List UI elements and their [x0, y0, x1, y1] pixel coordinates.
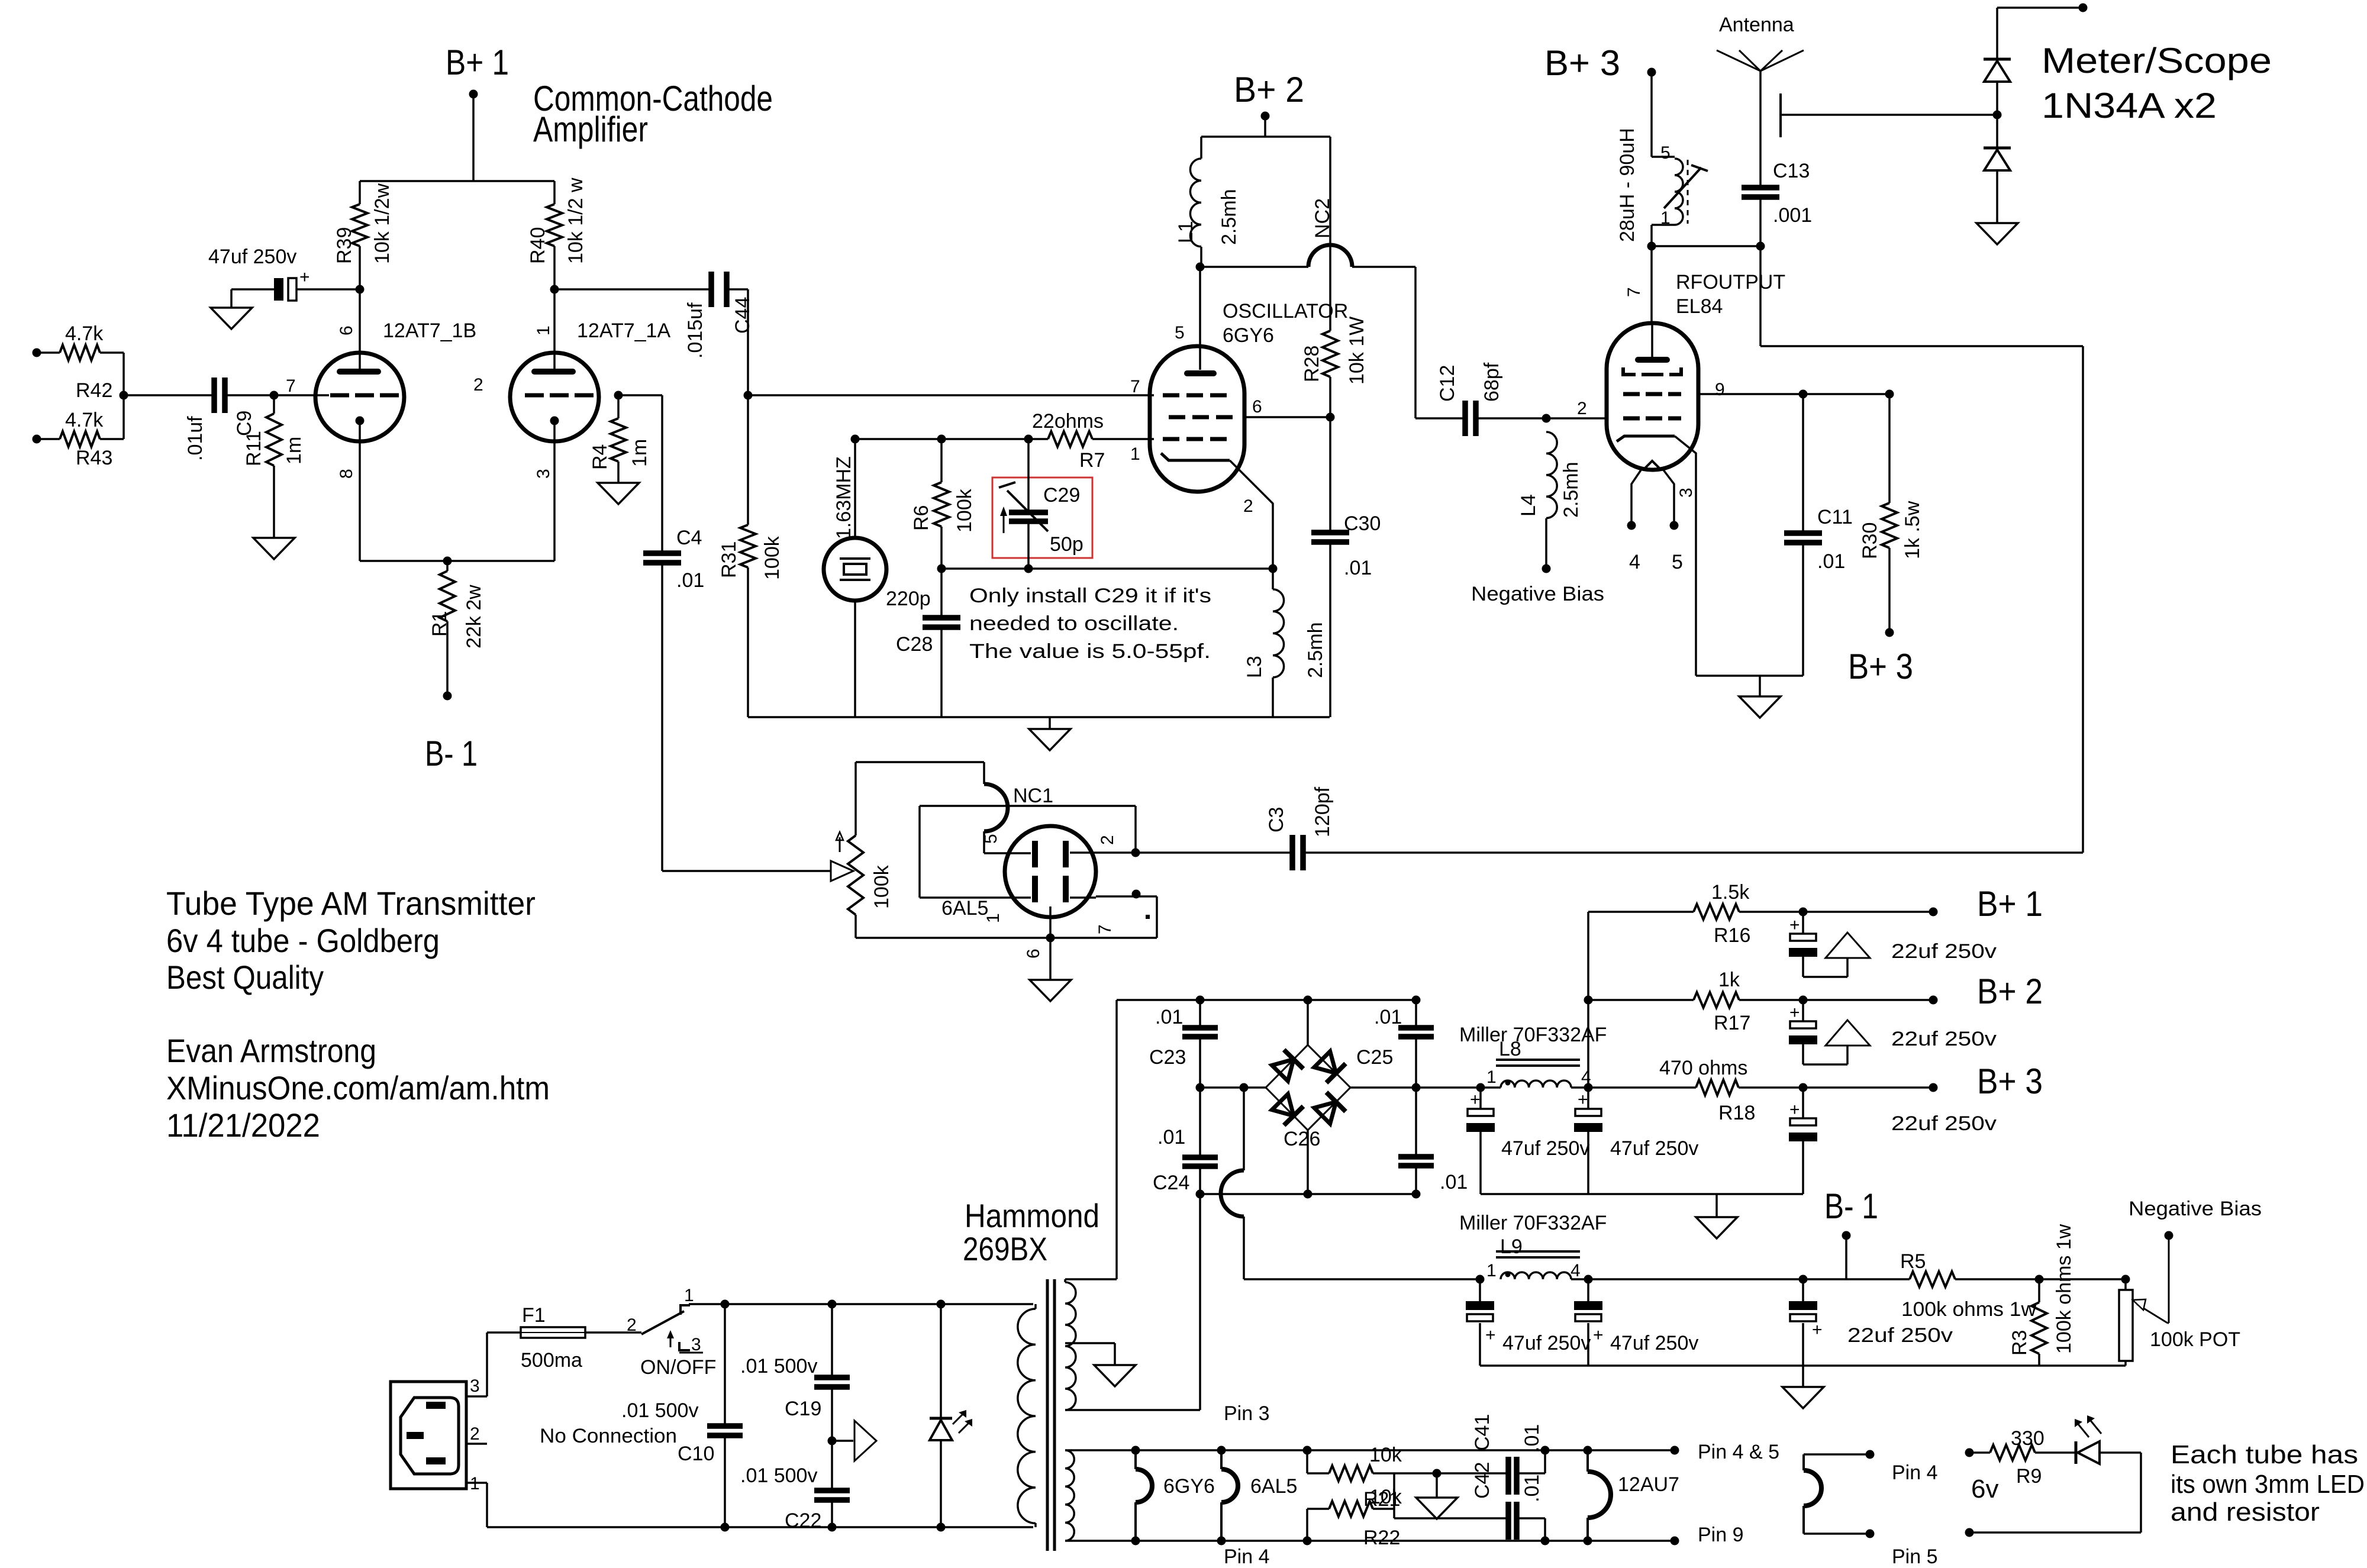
svg-text:.01: .01 — [1344, 557, 1372, 579]
svg-text:R22: R22 — [1363, 1527, 1400, 1549]
svg-text:C12: C12 — [1436, 365, 1459, 402]
node grid junction 7 — [270, 391, 330, 400]
wire inlet pin3 to fuse — [466, 1333, 521, 1396]
capacitor C42 .01 — [1394, 1462, 1550, 1546]
wire tank row — [941, 564, 1278, 573]
ground HV center tap — [1065, 1343, 1136, 1386]
resistor R30 1k .5w — [1859, 394, 1924, 637]
svg-text:1: 1 — [684, 1286, 694, 1305]
svg-text:2: 2 — [1577, 399, 1587, 418]
svg-text:C3: C3 — [1265, 807, 1288, 833]
svg-text:47uf 250v: 47uf 250v — [1502, 1332, 1591, 1354]
capacitor C30 .01 — [1311, 417, 1381, 717]
transformer T1 Hammond 269BX — [963, 1197, 1099, 1551]
tube heater EL84 — [1804, 1450, 1938, 1568]
resistor R43 4.7k — [33, 409, 124, 469]
ground heater — [1416, 1469, 1457, 1519]
svg-text:7: 7 — [1095, 924, 1115, 934]
svg-text:4.7k: 4.7k — [65, 322, 104, 345]
svg-text:C29: C29 — [1043, 484, 1080, 506]
svg-text:EL84: EL84 — [1676, 295, 1723, 318]
svg-text:1k: 1k — [1718, 969, 1740, 991]
potentiometer 100k POT — [2119, 1240, 2240, 1366]
svg-text:Amplifier: Amplifier — [533, 109, 648, 149]
svg-text:C23: C23 — [1149, 1046, 1186, 1069]
wire cathode rail — [360, 557, 554, 566]
svg-text:.01uf: .01uf — [184, 416, 207, 461]
svg-text:2: 2 — [1243, 496, 1253, 516]
svg-text:1: 1 — [1486, 1261, 1497, 1280]
capacitor 22uf 250v (B-) — [1789, 1275, 1953, 1366]
svg-text:22uf 250v: 22uf 250v — [1891, 940, 1997, 963]
ground EL84 — [1739, 676, 1781, 718]
svg-text:.001: .001 — [1773, 204, 1812, 227]
resistor R7 22ohms — [1028, 410, 1154, 472]
wire B+ ladder column — [1584, 912, 1593, 1088]
svg-text:R16: R16 — [1714, 924, 1750, 947]
svg-text:ON/OFF: ON/OFF — [640, 1356, 716, 1379]
svg-text:+: + — [1470, 1090, 1481, 1109]
svg-text:+: + — [1485, 1325, 1496, 1345]
svg-text:1: 1 — [983, 913, 1003, 923]
bridge rectifier D3-D6 — [1266, 1045, 1350, 1130]
potentiometer 100k — [662, 762, 893, 938]
svg-text:R1: R1 — [428, 611, 451, 637]
capacitor C23 .01 — [1149, 996, 1218, 1088]
svg-text:L1: L1 — [1175, 221, 1197, 243]
node Negative Bias output — [2129, 1198, 2262, 1240]
svg-text:The value is 5.0-55pf.: The value is 5.0-55pf. — [969, 640, 1211, 663]
svg-text:5: 5 — [981, 834, 1001, 844]
svg-text:C44: C44 — [731, 297, 754, 334]
svg-text:B+ 1: B+ 1 — [1977, 884, 2043, 924]
ground oscillator — [1029, 717, 1070, 750]
svg-text:7: 7 — [286, 376, 296, 396]
resistor R39 10k 1/2w — [333, 181, 394, 289]
svg-text:10k: 10k — [1369, 1444, 1402, 1466]
svg-text:6AL5: 6AL5 — [1250, 1475, 1297, 1498]
svg-text:C13: C13 — [1773, 160, 1810, 182]
svg-text:10k 1/2 w: 10k 1/2 w — [565, 178, 587, 264]
diode D2 1N34A — [1984, 148, 2011, 223]
node B- 1 — [1824, 1186, 1878, 1279]
svg-text:No Connection: No Connection — [540, 1425, 677, 1447]
svg-text:L9: L9 — [1500, 1235, 1523, 1258]
svg-text:3: 3 — [534, 469, 553, 479]
wire 6AL5 pin2 row — [1096, 848, 1290, 857]
svg-text:XMinusOne.com/am/am.htm: XMinusOne.com/am/am.htm — [166, 1069, 550, 1106]
svg-text:Evan Armstrong: Evan Armstrong — [166, 1032, 376, 1069]
svg-text:+: + — [299, 267, 310, 287]
resistor R5 100k ohms 1w — [1900, 1250, 2036, 1321]
svg-text:R18: R18 — [1718, 1102, 1755, 1124]
svg-text:100k ohms 1w: 100k ohms 1w — [1901, 1298, 2036, 1321]
svg-text:4.7k: 4.7k — [65, 409, 104, 431]
svg-text:R3: R3 — [2008, 1330, 2031, 1356]
svg-text:6GY6: 6GY6 — [1223, 324, 1274, 347]
svg-text:Negative Bias: Negative Bias — [2129, 1198, 2262, 1220]
wire RF to meter loop — [1760, 246, 2083, 853]
svg-text:+: + — [1578, 1090, 1588, 1109]
wire rail2 AC left — [1200, 1083, 1266, 1092]
svg-text:10k 1/2w: 10k 1/2w — [371, 183, 394, 264]
capacitor C12 68pf — [1436, 362, 1546, 436]
svg-text:B+ 3: B+ 3 — [1848, 647, 1913, 686]
ground rail5 — [1696, 1194, 1737, 1238]
svg-text:50p: 50p — [1050, 533, 1083, 556]
svg-text:5: 5 — [1175, 323, 1185, 343]
node B+ 2 — [1201, 70, 1330, 137]
resistor R28 10k 1W — [1301, 137, 1368, 417]
svg-text:R4: R4 — [589, 444, 611, 470]
svg-text:1: 1 — [1486, 1067, 1497, 1087]
svg-text:.01: .01 — [676, 569, 704, 592]
svg-text:.01: .01 — [1521, 1475, 1543, 1502]
node Pin 4 and 5 terminal — [1671, 1441, 1779, 1463]
svg-text:+: + — [1789, 1003, 1800, 1022]
svg-text:.01 500v: .01 500v — [740, 1464, 817, 1487]
capacitor C11 .01 — [1784, 394, 1853, 676]
wire C44 to oscillator grid — [744, 289, 1155, 400]
svg-text:C25: C25 — [1356, 1046, 1393, 1069]
resistor R21 10k — [1303, 1444, 1437, 1511]
wire NC1 hop — [984, 784, 1053, 853]
svg-text:C11: C11 — [1817, 506, 1853, 528]
resistor R3 100k ohms 1w — [2008, 1224, 2075, 1366]
svg-text:6GY6: 6GY6 — [1163, 1475, 1215, 1498]
wire NC2 hop — [1200, 198, 1463, 418]
svg-text:Miller 70F332AF: Miller 70F332AF — [1459, 1024, 1607, 1046]
capacitor C25 .01 — [1356, 996, 1434, 1088]
capacitor 47uf 250v (B+ filter 2) — [1574, 1088, 1698, 1194]
svg-text:Meter/Scope: Meter/Scope — [2042, 41, 2272, 80]
capacitor C13 .001 — [1742, 160, 1812, 246]
svg-text:C26: C26 — [1284, 1128, 1320, 1150]
svg-text:68pf: 68pf — [1481, 362, 1503, 402]
capacitor 47uf 250v (B+ filter 1) — [1466, 1088, 1589, 1194]
svg-text:Hammond: Hammond — [965, 1197, 1099, 1234]
label Negative Bias L4 — [1471, 583, 1604, 605]
svg-text:6v: 6v — [1971, 1475, 1998, 1504]
svg-text:+: + — [1812, 1320, 1823, 1340]
svg-text:L4: L4 — [1517, 494, 1540, 517]
svg-text:.01: .01 — [1155, 1006, 1183, 1028]
resistor R6 100k — [910, 435, 976, 573]
transformer heater winding — [1065, 1402, 1675, 1568]
svg-text:.01 500v: .01 500v — [621, 1399, 698, 1422]
capacitor C44 .015uf — [554, 272, 754, 359]
svg-text:.01: .01 — [1521, 1424, 1543, 1452]
resistor R4 1m — [589, 391, 651, 483]
resistor R18 470 ohms — [1659, 1057, 1933, 1124]
svg-text:Tube Type AM Transmitter: Tube Type AM Transmitter — [166, 885, 536, 922]
svg-text:its own 3mm LED: its own 3mm LED — [2171, 1470, 2365, 1499]
svg-text:NC1: NC1 — [1013, 785, 1053, 807]
svg-text:B+ 2: B+ 2 — [1234, 70, 1304, 109]
svg-text:3: 3 — [691, 1335, 701, 1354]
node B+ 3 top — [1544, 43, 1656, 157]
tube U3 EL84 RF output — [1607, 323, 1725, 676]
scope probe tick — [1781, 93, 2002, 137]
svg-text:6: 6 — [1252, 397, 1262, 417]
svg-text:6v 4 tube - Goldberg: 6v 4 tube - Goldberg — [166, 922, 440, 959]
wire 6AL5 pin7 loop — [856, 890, 1157, 938]
label Common-Cathode Amplifier — [533, 79, 773, 149]
inductor L1 2.5mh — [1175, 137, 1240, 272]
wire bridge top to rail1 — [1304, 996, 1313, 1046]
capacitor C22 .01 500v — [740, 1441, 850, 1532]
svg-text:220p: 220p — [886, 588, 931, 610]
svg-text:.01: .01 — [1817, 550, 1845, 573]
svg-text:+: + — [1789, 915, 1800, 935]
svg-text:C41: C41 — [1471, 1414, 1494, 1451]
capacitor 47uf 250v (B- filter 1) — [1466, 1279, 1591, 1366]
tube heater 12AU7 — [1584, 1446, 1679, 1546]
capacitor C28 220p — [886, 569, 960, 717]
wire LED return — [1965, 1453, 2142, 1537]
resistor R40 10k 1/2w — [527, 178, 587, 289]
svg-text:F1: F1 — [522, 1304, 546, 1327]
wire 6AL5 inner box — [920, 806, 1136, 898]
wire input junction — [120, 353, 212, 439]
svg-text:R17: R17 — [1714, 1012, 1750, 1034]
svg-text:needed to oscillate.: needed to oscillate. — [969, 612, 1179, 635]
svg-text:28uH - 90uH: 28uH - 90uH — [1616, 128, 1639, 242]
svg-text:R31: R31 — [718, 541, 740, 578]
svg-text:C4: C4 — [676, 527, 702, 549]
svg-text:5: 5 — [1672, 551, 1683, 573]
svg-text:6: 6 — [1024, 948, 1043, 959]
wire inlet pin2 stub — [466, 1425, 677, 1447]
svg-text:Negative Bias: Negative Bias — [1471, 583, 1604, 605]
inductor L3 2.5mh — [1243, 569, 1327, 717]
svg-text:R39: R39 — [333, 227, 356, 264]
svg-text:2: 2 — [1098, 835, 1117, 845]
svg-text:R40: R40 — [527, 227, 549, 264]
node B+ 1 output — [1799, 884, 2043, 924]
svg-text:C22: C22 — [785, 1509, 821, 1532]
svg-text:Pin 3: Pin 3 — [1224, 1402, 1270, 1425]
svg-text:B+ 3: B+ 3 — [1977, 1062, 2043, 1101]
svg-text:RFOUTPUT: RFOUTPUT — [1676, 271, 1785, 293]
inductor L8 Miller 70F332AF — [1459, 1024, 1696, 1092]
svg-text:C10: C10 — [678, 1443, 714, 1465]
title text block — [166, 885, 536, 996]
tube U4 6AL5 — [941, 826, 1150, 959]
svg-text:2: 2 — [627, 1315, 637, 1335]
svg-text:Only install C29 it if it's: Only install C29 it if it's — [969, 585, 1211, 607]
svg-text:6: 6 — [337, 325, 356, 335]
author text block — [166, 1032, 550, 1144]
svg-text:5: 5 — [1660, 143, 1671, 163]
svg-text:8: 8 — [337, 469, 356, 479]
capacitor C9 .01uf — [184, 378, 274, 461]
svg-text:7: 7 — [1624, 287, 1644, 297]
svg-text:2: 2 — [473, 375, 483, 395]
svg-text:1m: 1m — [628, 439, 651, 467]
node 6AL5 pin6 ground — [1030, 934, 1071, 1002]
label RFOUTPUT EL84 — [1624, 271, 1785, 318]
svg-text:22ohms: 22ohms — [1032, 410, 1104, 433]
svg-text:12AU7: 12AU7 — [1618, 1473, 1679, 1496]
wire C12 to EL84 grid — [1546, 399, 1607, 418]
svg-text:Antenna: Antenna — [1719, 14, 1794, 36]
capacitor C3 120pf — [1265, 786, 1334, 870]
capacitor C19 .01 500v — [740, 1300, 850, 1441]
svg-text:R5: R5 — [1900, 1250, 1926, 1273]
inductor L4 2.5mh — [1517, 414, 1582, 573]
ground meter — [1976, 223, 2018, 244]
capacitor C29 50p trimmer — [992, 435, 1092, 573]
transformer HV secondary — [1065, 1279, 1117, 1410]
switch SW1 ON/OFF — [627, 1286, 1033, 1379]
wire B- ground rail7 — [1480, 1364, 2126, 1367]
svg-text:.01: .01 — [1157, 1126, 1185, 1148]
tube U1A 12AT7_1A — [473, 289, 670, 561]
svg-text:10k 1W: 10k 1W — [1346, 317, 1368, 385]
fuse F1 500ma — [521, 1304, 641, 1372]
label Meter/Scope 1N34A x2 — [2042, 41, 2272, 125]
LED power indicator — [930, 1300, 972, 1532]
svg-text:1.5k: 1.5k — [1711, 881, 1750, 904]
svg-text:22uf 250v: 22uf 250v — [1847, 1324, 1953, 1347]
svg-text:3: 3 — [470, 1376, 480, 1396]
tube heater 6AL5 — [1217, 1446, 1298, 1546]
wire inlet pin1 to bottom rail — [466, 1483, 1033, 1527]
svg-text:22k 2w: 22k 2w — [463, 585, 485, 649]
svg-text:R28: R28 — [1301, 346, 1323, 382]
wire oscillator bottom rail — [748, 716, 1330, 718]
wire AC2 hop to L9 row — [1221, 1088, 1480, 1279]
svg-text:6AL5: 6AL5 — [941, 897, 988, 919]
ground R11 — [253, 538, 295, 559]
svg-text:R11: R11 — [243, 431, 265, 466]
node B- 1 amplifier — [425, 734, 478, 773]
svg-text:Best Quality: Best Quality — [166, 959, 324, 996]
svg-text:47uf 250v: 47uf 250v — [1610, 1137, 1698, 1160]
svg-text:R30: R30 — [1859, 522, 1881, 559]
svg-text:B- 1: B- 1 — [1824, 1186, 1878, 1226]
svg-text:C42: C42 — [1471, 1462, 1494, 1499]
svg-text:2: 2 — [470, 1424, 480, 1444]
resistor R1 22k 2w — [428, 561, 485, 701]
svg-text:C24: C24 — [1153, 1172, 1189, 1194]
svg-text:B- 1: B- 1 — [425, 734, 478, 773]
svg-text:.01: .01 — [1374, 1006, 1402, 1028]
svg-text:B+ 3: B+ 3 — [1544, 43, 1620, 83]
svg-text:Miller 70F332AF: Miller 70F332AF — [1459, 1212, 1607, 1234]
node R40 plate junction — [550, 285, 559, 294]
capacitor 22uf 250v (B+3) — [1789, 1088, 1997, 1194]
svg-text:7: 7 — [1130, 377, 1140, 396]
resistor R22 10k — [1303, 1473, 1402, 1549]
capacitor 47uf 250v (B- filter 2) — [1574, 1279, 1698, 1366]
wire ground rail5 — [1481, 1193, 1803, 1195]
node R39 plate junction — [356, 285, 365, 294]
wire 6GY6 pin6 — [1244, 413, 1335, 422]
capacitor C4 .01 — [618, 395, 704, 871]
node Pin 9 terminal — [1671, 1524, 1744, 1546]
svg-text:and resistor: and resistor — [2171, 1498, 2320, 1527]
svg-text:.01: .01 — [1440, 1171, 1468, 1193]
svg-text:1.63MHZ: 1.63MHZ — [833, 456, 855, 539]
svg-text:10k: 10k — [1369, 1486, 1402, 1508]
svg-text:4: 4 — [1571, 1261, 1581, 1280]
svg-text:C30: C30 — [1344, 512, 1381, 535]
node B+ 2 output — [1799, 972, 2043, 1011]
arrow test point — [828, 1421, 877, 1461]
resistor R17 1k — [1588, 969, 1933, 1034]
capacitor 22uf 250v (B+2) — [1789, 1000, 1997, 1064]
resistor R42 4.7k — [33, 322, 124, 402]
svg-text:2.5mh: 2.5mh — [1304, 622, 1327, 679]
svg-text:R9: R9 — [2016, 1465, 2042, 1488]
antenna — [1717, 14, 1804, 185]
svg-text:Pin 4: Pin 4 — [1892, 1461, 1938, 1484]
svg-text:R7: R7 — [1079, 449, 1105, 472]
svg-text:B+ 2: B+ 2 — [1977, 972, 2043, 1011]
capacitor C26 .01 — [1284, 1088, 1468, 1199]
resistor R11 1m — [243, 395, 305, 538]
svg-text:100k: 100k — [761, 535, 783, 580]
wire EL84 pin9 row — [1698, 390, 1894, 399]
wire HV bottom column — [1068, 1190, 1205, 1411]
capacitor C10 .01 500v — [621, 1300, 743, 1532]
wire HV secondary to bridge rail1 — [1117, 1000, 1416, 1279]
svg-text:2.5mh: 2.5mh — [1560, 462, 1582, 518]
inductor L9 Miller 70F332AF — [1459, 1212, 2126, 1284]
resistor R16 1.5k — [1588, 881, 1933, 947]
wire B+1 rail — [360, 180, 554, 182]
svg-text:.015uf: .015uf — [684, 302, 707, 359]
svg-text:4: 4 — [1629, 551, 1640, 573]
svg-text:47uf 250v: 47uf 250v — [1610, 1332, 1698, 1354]
svg-text:47uf 250v: 47uf 250v — [1501, 1137, 1589, 1160]
svg-text:C28: C28 — [896, 633, 933, 656]
svg-text:L3: L3 — [1243, 656, 1266, 678]
svg-text:+: + — [1789, 1100, 1800, 1119]
diode D1 1N34A — [1984, 4, 2088, 149]
svg-text:500ma: 500ma — [521, 1349, 582, 1372]
connector J1 AC inlet — [391, 1376, 480, 1493]
svg-text:100k ohms 1w: 100k ohms 1w — [2053, 1224, 2075, 1354]
svg-text:Pin 5: Pin 5 — [1892, 1546, 1938, 1565]
inductor L5 28uH - 90uH variable — [1616, 128, 1708, 250]
ground R4 — [598, 483, 639, 504]
tube U2 6GY6 oscillator — [1130, 267, 1348, 569]
node B+ 1 — [446, 43, 509, 181]
capacitor C41 .01 — [1437, 1414, 1550, 1495]
svg-text:100k POT: 100k POT — [2150, 1328, 2240, 1351]
svg-text:2.5mh: 2.5mh — [1218, 189, 1240, 246]
wire EL84 cathode rail — [1696, 675, 1803, 677]
tube heater 6GY6 — [1131, 1446, 1215, 1546]
node B+ 3 output — [1848, 647, 1913, 686]
resistor R31 100k — [718, 395, 783, 717]
ground 47uf cap — [211, 289, 252, 329]
svg-text:Pin 4: Pin 4 — [1224, 1546, 1270, 1565]
svg-text:9: 9 — [1715, 380, 1725, 399]
wire pot top to NC1 — [856, 762, 984, 784]
wire plate node to antenna node — [1652, 242, 1765, 324]
wire bridge bottom to rail4 — [1304, 1130, 1313, 1199]
note only install C29 — [969, 585, 1211, 663]
wire rail4 DC minus — [1200, 1193, 1416, 1195]
svg-text:R43: R43 — [76, 447, 112, 469]
tube U1B 12AT7_1B — [286, 289, 476, 561]
svg-text:R6: R6 — [910, 505, 933, 531]
wire crystal row — [855, 438, 1028, 440]
